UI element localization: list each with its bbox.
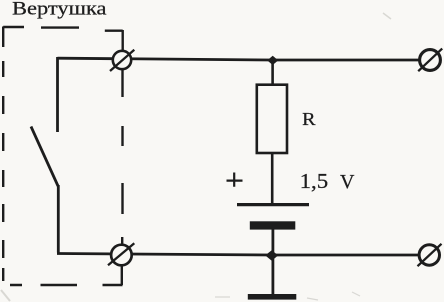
svg-text:1,5: 1,5 — [300, 169, 329, 193]
svg-text:V: V — [340, 171, 355, 193]
svg-text:R: R — [302, 109, 315, 129]
svg-text:Вертушка: Вертушка — [12, 0, 107, 20]
